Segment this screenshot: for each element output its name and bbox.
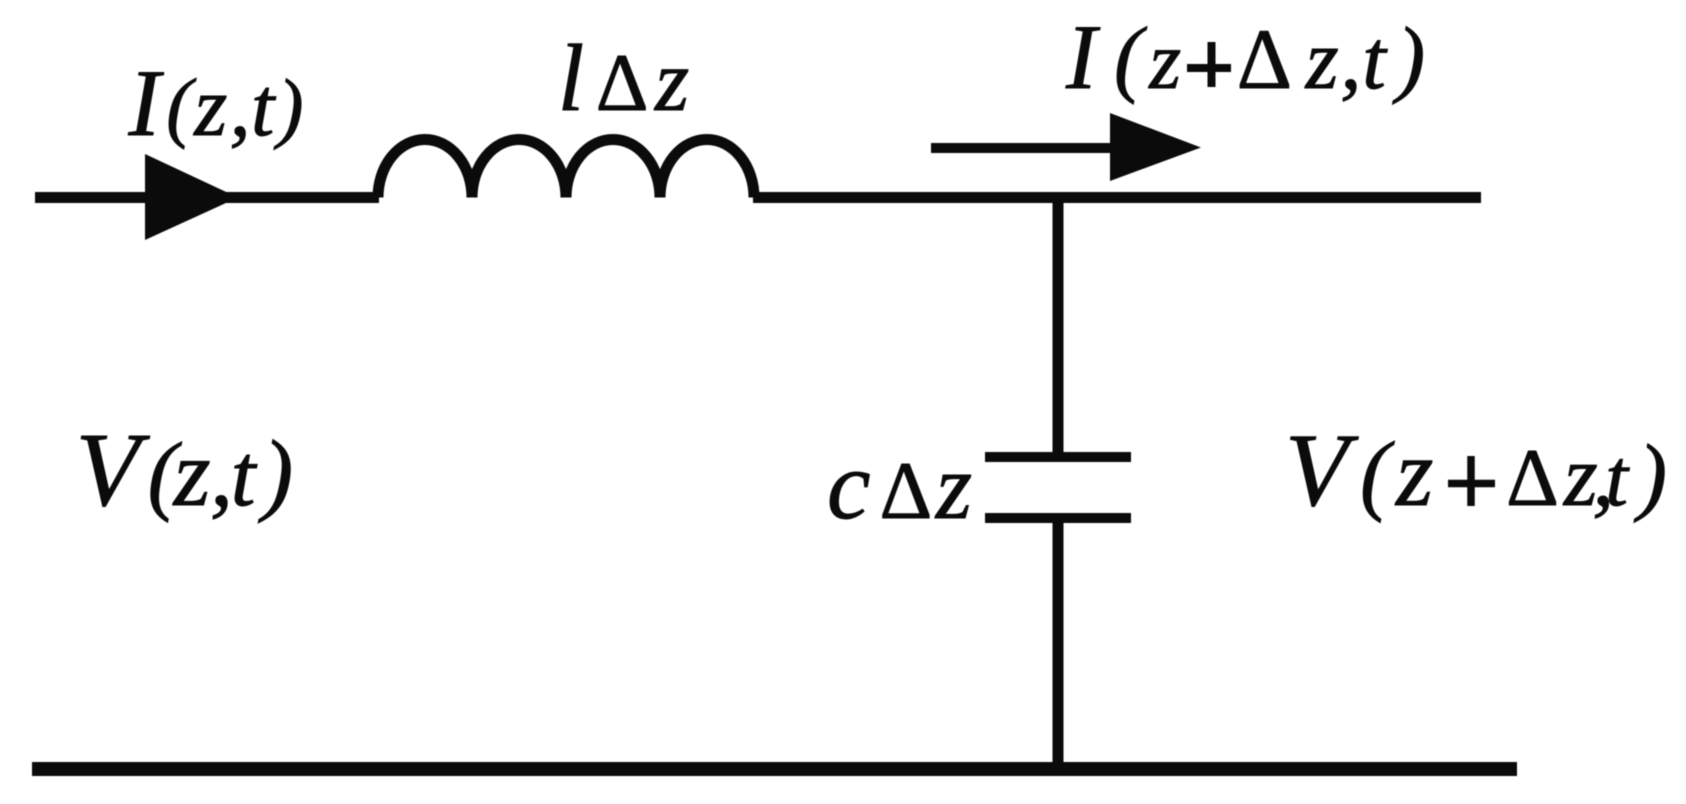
svg-text:,: ,	[230, 60, 251, 154]
svg-text:,: ,	[210, 423, 233, 525]
svg-text:Δ: Δ	[1237, 11, 1292, 107]
svg-text:Δ: Δ	[880, 445, 933, 536]
label lΔz	[558, 25, 690, 131]
svg-text:z: z	[1305, 13, 1339, 107]
wire: bottom conductor	[32, 762, 1517, 776]
wire: vertical branch wire lower	[1053, 518, 1064, 769]
svg-text:I: I	[1065, 6, 1101, 108]
svg-text:z: z	[172, 420, 211, 526]
node: vertical branch wire upper	[1053, 192, 1064, 457]
svg-text:): )	[1392, 9, 1426, 105]
svg-text:): )	[1633, 426, 1667, 523]
wire: top conductor left segment	[35, 192, 379, 203]
svg-text:z: z	[193, 60, 227, 154]
wire: top conductor right segment	[753, 192, 1481, 203]
label V(z+Δz,t)	[1285, 413, 1667, 528]
svg-text:V: V	[76, 411, 151, 528]
svg-text:z: z	[1148, 15, 1181, 106]
current arrow I(z,t)	[145, 154, 238, 240]
label V(z,t)	[76, 411, 294, 528]
svg-text:z: z	[1394, 419, 1433, 526]
inductor lΔz	[378, 140, 754, 198]
svg-text:z: z	[934, 436, 972, 539]
capacitor cΔz top plate	[985, 452, 1131, 462]
svg-text:(: (	[1360, 425, 1395, 524]
svg-text:I: I	[128, 50, 165, 156]
svg-text:z: z	[654, 33, 689, 130]
svg-text:t: t	[231, 427, 258, 525]
svg-text:t: t	[1605, 432, 1630, 523]
svg-text:Δ: Δ	[1506, 432, 1559, 523]
svg-text:l: l	[558, 25, 584, 131]
svg-text:): )	[258, 422, 294, 524]
svg-text:c: c	[827, 432, 871, 540]
label I(z+Δz,t)	[1065, 6, 1425, 108]
svg-text:V: V	[1285, 413, 1359, 528]
label I(z,t)	[128, 50, 304, 156]
svg-text:,: ,	[1340, 13, 1361, 107]
svg-text:): )	[274, 63, 304, 150]
svg-text:t: t	[1362, 13, 1388, 107]
label cΔz	[827, 432, 972, 540]
svg-text:Δ: Δ	[596, 37, 649, 128]
current arrow I(z+Δz,t)	[931, 143, 1112, 153]
svg-text:t: t	[251, 61, 277, 154]
svg-text:(: (	[166, 63, 196, 150]
capacitor cΔz bottom plate	[985, 513, 1131, 523]
